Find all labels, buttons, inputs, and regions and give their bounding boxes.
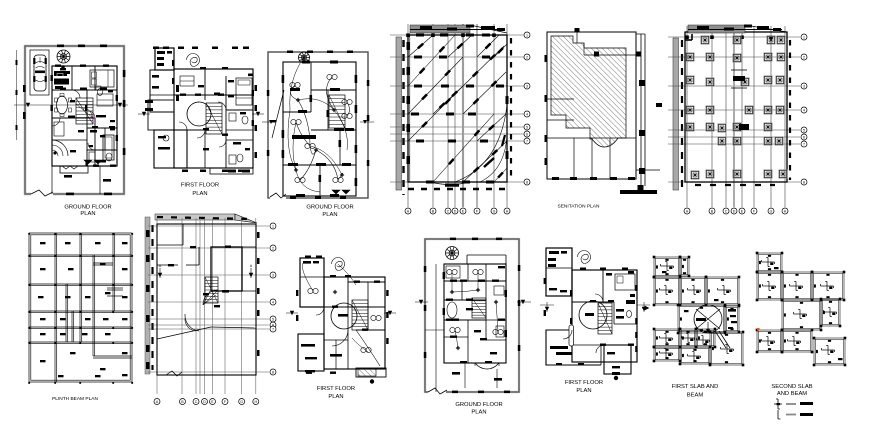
plan 1 car bbox=[34, 55, 46, 91]
svg-text:H: H bbox=[254, 400, 257, 404]
plan 6 top grey beam strip bbox=[688, 25, 745, 33]
svg-text:FIRST FLOOR: FIRST FLOOR bbox=[565, 380, 603, 386]
plan 2 bottom-left room bbox=[154, 130, 187, 168]
plan 5 soil pipe right duct bbox=[640, 34, 642, 186]
plan 13 bent-bar symbols bbox=[762, 261, 775, 263]
plan 1 toilet fixtures bbox=[97, 89, 102, 96]
svg-text:C: C bbox=[725, 209, 728, 213]
plan 12 bent-bar symbols bbox=[661, 265, 674, 267]
svg-text:PLAN: PLAN bbox=[471, 410, 486, 416]
svg-text:8: 8 bbox=[526, 180, 528, 184]
plan 10 bed and table bbox=[446, 266, 460, 278]
plan 5 left edge ticks bbox=[545, 55, 548, 62]
svg-text:PLAN: PLAN bbox=[328, 394, 343, 400]
svg-text:6: 6 bbox=[803, 135, 805, 139]
plan 11 bottom right block bbox=[604, 345, 631, 374]
svg-text:PLAN: PLAN bbox=[192, 191, 207, 197]
plan 9 main block bbox=[324, 277, 385, 369]
plan 7 internal beams horizontal bbox=[29, 254, 132, 256]
svg-text:GROUND FLOOR: GROUND FLOOR bbox=[455, 402, 502, 408]
plan 8 small bars bbox=[203, 293, 209, 295]
plan 2 round lobby bbox=[187, 102, 211, 126]
plan 3: GROUND FLOOR PLAN electrical (top row 3rd) - plot boundary bbox=[268, 52, 368, 198]
plan 4 wide grey verticals bbox=[462, 24, 464, 207]
plan 6 right dashed bar bbox=[789, 40, 791, 180]
plan 1 garage bay bbox=[30, 50, 49, 95]
plan 6 grid lines horizontal bbox=[668, 36, 800, 38]
plan 12 extra dashes bbox=[684, 310, 689, 312]
plan 4 panel diagonals with bar dashes bbox=[408, 35, 433, 57]
svg-text:G: G bbox=[240, 400, 243, 404]
svg-text:7: 7 bbox=[272, 327, 274, 331]
plan 7 beam tick marks bbox=[40, 242, 46, 244]
plan 11 bed top-right bbox=[615, 274, 635, 290]
plan 4 box left double edge bbox=[409, 35, 411, 182]
plan 11: FIRST FLOOR PLAN (bottom 5th) - top-left block bbox=[546, 248, 572, 296]
plan 5: SENITATION PLAN (top row 5th) - outer wall bbox=[547, 32, 636, 179]
plan 2 top middle wardrobe bbox=[176, 85, 179, 92]
plan 3 light fittings bbox=[290, 82, 295, 87]
svg-text:5: 5 bbox=[526, 125, 528, 129]
plan 12 circle with cross bracing bbox=[694, 305, 722, 333]
plan 4 left dashed reinforcement bar bbox=[402, 40, 404, 195]
plan 1 dining table bbox=[57, 96, 68, 114]
svg-text:4: 4 bbox=[803, 108, 805, 112]
plan 10 compound walk lines bbox=[435, 264, 437, 392]
plan 12 down arrow bbox=[706, 329, 710, 333]
svg-text:C: C bbox=[195, 400, 198, 404]
plan 11 internal walls bbox=[572, 301, 614, 303]
plan 9 internal walls bbox=[324, 306, 385, 308]
plan 10 wiring arcs bbox=[451, 272, 453, 292]
plan 9 bottom-right room fixtures bbox=[361, 347, 366, 352]
svg-text:PLAN: PLAN bbox=[322, 212, 337, 218]
plan 1 magenta datum dot bbox=[93, 117, 95, 119]
plan 12 ramp diagonal bbox=[715, 331, 726, 348]
svg-text:FIRST FLOOR: FIRST FLOOR bbox=[181, 183, 219, 189]
plan 1 staircase bbox=[76, 98, 93, 124]
svg-text:FIRST FLOOR: FIRST FLOOR bbox=[317, 386, 355, 392]
svg-text:GROUND FLOOR: GROUND FLOOR bbox=[306, 205, 353, 211]
plan 9 staircase bbox=[352, 300, 368, 330]
svg-text:4: 4 bbox=[272, 300, 274, 304]
plan 1 left margin ticks bbox=[16, 60, 18, 65]
plan 3 diagonal conduit top-left bbox=[272, 90, 284, 138]
plan 11 top-right corner dark cluster bbox=[626, 300, 635, 304]
svg-text:PLAN: PLAN bbox=[80, 211, 95, 217]
plan 11 door pill left wall bbox=[569, 325, 574, 346]
plan 11 swirl bbox=[578, 251, 591, 264]
plan 1 bed bbox=[90, 70, 114, 87]
plan 9 wiring arcs bbox=[302, 263, 313, 291]
plan 6 top-left corner step bbox=[685, 39, 692, 41]
svg-text:C: C bbox=[447, 209, 450, 213]
plan 1 side arrows bbox=[26, 103, 30, 107]
svg-text:6: 6 bbox=[526, 132, 528, 136]
plan 10 bay curve bottom bbox=[475, 363, 499, 369]
plan 8 section arrows bbox=[158, 273, 163, 278]
plan 10 plot ticks bbox=[450, 238, 456, 241]
plan 2 internal walls bbox=[174, 94, 253, 96]
plan 7 intersection dots bbox=[28, 233, 30, 235]
plan 4 grid bubbles right bbox=[524, 32, 530, 38]
plan 6 footing outline bbox=[685, 32, 787, 182]
plan 6 grid lines vertical bbox=[686, 26, 688, 207]
plan 4 slab outline bbox=[408, 35, 507, 182]
plan 2 staircase bbox=[206, 103, 222, 134]
plan 12 narrow duct bars bbox=[728, 309, 736, 312]
plan 1 house outer wall bbox=[52, 66, 117, 166]
plan 5 vent pipe line top bbox=[576, 29, 578, 43]
svg-text:H: H bbox=[784, 209, 787, 213]
svg-text:1: 1 bbox=[526, 33, 528, 37]
svg-text:5: 5 bbox=[803, 128, 805, 132]
plan 1 tree symbol bbox=[57, 50, 70, 63]
plan 9 arrows bbox=[290, 311, 294, 315]
plan 8 internal walls bbox=[157, 244, 183, 246]
plan 3 house outer wall bbox=[283, 62, 356, 196]
plan 6 grid bubbles bottom bbox=[684, 208, 690, 214]
svg-text:1: 1 bbox=[272, 224, 274, 228]
plan 3 heavy bars bbox=[290, 88, 300, 91]
plan 4 grid lines vertical bbox=[407, 24, 409, 207]
plan 13 extra dashes bbox=[774, 267, 779, 269]
plan 6 column footings bbox=[701, 36, 709, 44]
svg-text:3: 3 bbox=[526, 84, 528, 88]
plan 8 gate zigzag bottom bbox=[166, 371, 182, 376]
plan 2 bath fixtures mid-right bbox=[242, 116, 248, 124]
plan 4 grid intersection blobs top bbox=[406, 33, 410, 37]
plan 11 door arcs bbox=[595, 294, 603, 302]
plan 1 door swing arcs bbox=[72, 90, 80, 98]
plan 10 gate break bottom-left bbox=[428, 388, 446, 395]
svg-text:PLINTH BEAM PLAN: PLINTH BEAM PLAN bbox=[52, 396, 98, 402]
plan 5 bottom edge ticks bbox=[552, 177, 559, 180]
plan 4 grid bubbles bottom bbox=[405, 208, 411, 214]
plan 3 wiring arcs bbox=[291, 85, 298, 100]
svg-text:AND BEAM: AND BEAM bbox=[777, 391, 807, 397]
plan 12: FIRST SLAB AND BEAM (bottom 6th) - room cells bbox=[654, 257, 680, 277]
svg-text:D: D bbox=[454, 209, 457, 213]
plan 11 ticks bbox=[580, 268, 586, 270]
plan 2: FIRST FLOOR PLAN (top row 2nd) - balcony block bbox=[155, 48, 174, 70]
plan 3 fans bbox=[297, 99, 299, 101]
svg-text:8: 8 bbox=[803, 180, 805, 184]
plan 8 top grey beam band bbox=[155, 214, 235, 220]
plan 8 stair fan bbox=[203, 290, 218, 305]
plan 8 left band dashes bbox=[146, 230, 150, 237]
svg-text:FIRST SLAB AND: FIRST SLAB AND bbox=[672, 384, 719, 390]
plan 10 house outer wall bbox=[444, 264, 506, 363]
plan 2 left mid room bbox=[148, 100, 174, 130]
svg-text:3: 3 bbox=[272, 273, 274, 277]
svg-text:2: 2 bbox=[272, 246, 274, 250]
plan 1 dimension ticks bbox=[57, 45, 64, 48]
plan 3 porch chevrons bbox=[332, 190, 340, 194]
plan 3 long living bar bbox=[292, 135, 316, 139]
plan 7: PLINTH BEAM PLAN (bottom-left) - outer double beam bbox=[29, 233, 132, 382]
plan 4 right dashed bar bbox=[510, 38, 512, 182]
plan 8 grey grid lines horizontal bbox=[148, 225, 269, 227]
plan 2 bottom duct strip bbox=[210, 168, 253, 174]
svg-text:GROUND FLOOR: GROUND FLOOR bbox=[64, 205, 111, 211]
plan 2 side arrows bbox=[142, 112, 146, 116]
plan 10 staircase bbox=[472, 298, 486, 318]
svg-text:4: 4 bbox=[526, 112, 528, 116]
plan 1 horizontal dimension line bbox=[14, 104, 128, 106]
plan 1 kitchen counter bbox=[54, 71, 67, 76]
plan 5 bottom drain bar bbox=[620, 190, 657, 194]
plan 8 central room heavy walls bbox=[211, 247, 242, 291]
plan 4 long curved bars right-bottom bbox=[455, 105, 507, 182]
plan 5 right mid tick bbox=[656, 103, 662, 107]
plan 13 legend grey dash top bbox=[786, 403, 796, 405]
plan 2 swirl stair top bbox=[187, 54, 200, 67]
plan 6: column footing layout plan (top-right) - grey pilaster band bbox=[673, 38, 679, 190]
plan 4 bottom dashed bar bbox=[408, 188, 507, 190]
plan 2 dimension ticks bbox=[153, 47, 159, 50]
plan 4 top grey beam strip bbox=[410, 25, 470, 33]
plan 13 legend grey dash bottom bbox=[786, 414, 796, 416]
plan 6 grid bubbles right bbox=[801, 34, 807, 40]
plan 8 long diagonal bbox=[157, 327, 211, 339]
plan 9 swirl bbox=[332, 258, 345, 271]
plan 3 gate break bottom-left bbox=[270, 194, 286, 201]
plan 7 sub beams bbox=[93, 262, 113, 264]
plan 10 switch bars bbox=[450, 280, 457, 282]
plan 11 arrows bbox=[545, 307, 549, 311]
plan 3 plot ticks bbox=[287, 51, 293, 54]
svg-text:8: 8 bbox=[272, 370, 274, 374]
plan 2 bath fixtures bottom-right bbox=[237, 154, 243, 162]
plan 10 arrows bbox=[419, 300, 423, 304]
plan 8 grey grid lines vertical bbox=[156, 218, 158, 394]
svg-text:2: 2 bbox=[526, 55, 528, 59]
plan 1 internal walls bbox=[52, 89, 117, 91]
plan 13 legend bent bar bottom bbox=[777, 410, 779, 419]
svg-text:2: 2 bbox=[803, 55, 805, 59]
plan 8 quarter arcs bbox=[185, 314, 199, 331]
svg-text:7: 7 bbox=[526, 139, 528, 143]
plan 4: slab reinforcement grid plan (top row 4th) - left grey pilaster band bbox=[396, 37, 402, 190]
plan 9 hatched sill bottom bbox=[358, 369, 376, 376]
plan 4 grid lines horizontal bbox=[390, 34, 524, 36]
plan 9 ticks bbox=[305, 256, 311, 258]
plan 3 staircase hatch bbox=[329, 95, 345, 128]
plan 11 left lower room bbox=[546, 330, 601, 365]
svg-text:SENITATION PLAN: SENITATION PLAN bbox=[558, 204, 600, 210]
plan 6 grid intersection blobs top bbox=[685, 35, 689, 39]
plan 1 gate break in bottom boundary bbox=[31, 190, 53, 198]
svg-text:H: H bbox=[506, 209, 509, 213]
plan 11 main block bbox=[572, 270, 637, 362]
plan 6 left dashed bar bbox=[681, 40, 683, 190]
plan 6 bottom edge dashes bbox=[695, 184, 775, 186]
svg-text:1: 1 bbox=[803, 35, 805, 39]
plan 10 tree bbox=[446, 247, 459, 260]
plan 1 extra interior fittings bbox=[60, 68, 66, 70]
svg-text:BEAM: BEAM bbox=[687, 393, 704, 399]
svg-text:5: 5 bbox=[272, 317, 274, 321]
plan 3 internal walls bbox=[310, 62, 312, 112]
plan 2 bedroom furniture top-right bbox=[236, 78, 252, 105]
plan 11 bath fixtures right bbox=[616, 309, 624, 312]
plan 5 internal partition walls bbox=[547, 98, 574, 100]
plan 13: SECOND SLAB AND BEAM (bottom-right) - room cells bbox=[757, 253, 782, 272]
plan 6 wide grey vertical bbox=[733, 26, 735, 207]
svg-text:G: G bbox=[493, 209, 496, 213]
plan 11 round lobby bbox=[579, 301, 607, 329]
plan 12 left arrow bbox=[645, 306, 650, 311]
plan 11 staircase bbox=[598, 303, 612, 334]
plan 7 internal beams vertical bbox=[54, 233, 56, 382]
plan 8: centre line plan (bottom 2nd) - left grey band bbox=[145, 217, 150, 374]
plan 10: GROUND FLOOR PLAN (bottom 4th) - plot boundary bbox=[425, 239, 519, 392]
plan 4 grid line rebar dashes bbox=[416, 34, 424, 37]
plan 13 legend bent bar top bbox=[774, 403, 782, 405]
plan 9: FIRST FLOOR PLAN (bottom 3rd) - top-left room bbox=[300, 258, 324, 307]
svg-text:D: D bbox=[203, 400, 206, 404]
svg-text:7: 7 bbox=[803, 142, 805, 146]
plan 1: GROUND FLOOR PLAN (top-left) - plot boundary wall bbox=[25, 46, 124, 194]
plan 8 main outline bbox=[157, 224, 256, 375]
plan 1 veranda curve bottom-left bbox=[52, 140, 68, 156]
plan 3 side arrows bbox=[269, 120, 273, 124]
svg-text:SECOND SLAB: SECOND SLAB bbox=[771, 384, 812, 390]
plan 9 bottom-left block bbox=[298, 334, 324, 371]
svg-text:3: 3 bbox=[803, 84, 805, 88]
plan 3 tree symbol bbox=[299, 52, 310, 63]
plan 13 red datum mark bbox=[757, 328, 760, 331]
plan 8 right edge ticks bbox=[257, 232, 260, 238]
plan 1 porch bottom bbox=[60, 166, 88, 173]
plan 2 main block wall bbox=[174, 69, 253, 168]
plan 1 compound east walk bbox=[99, 166, 101, 194]
plan 8 grid bubbles right bbox=[270, 223, 276, 229]
plan 10 internal walls bbox=[444, 280, 506, 282]
svg-text:D: D bbox=[733, 209, 736, 213]
plan 13 legend black bar bottom bbox=[800, 413, 813, 416]
plan 10 furniture bits bbox=[447, 269, 452, 274]
plan 8 grid bubbles bottom bbox=[154, 399, 160, 405]
svg-text:G: G bbox=[770, 209, 773, 213]
plan 13 legend black bar top bbox=[800, 402, 813, 405]
plan 9 round lobby bbox=[331, 303, 357, 329]
plan 6 stair blobs bbox=[733, 76, 745, 81]
plan 2 door arcs bbox=[197, 130, 205, 138]
svg-text:PLAN: PLAN bbox=[576, 388, 591, 394]
